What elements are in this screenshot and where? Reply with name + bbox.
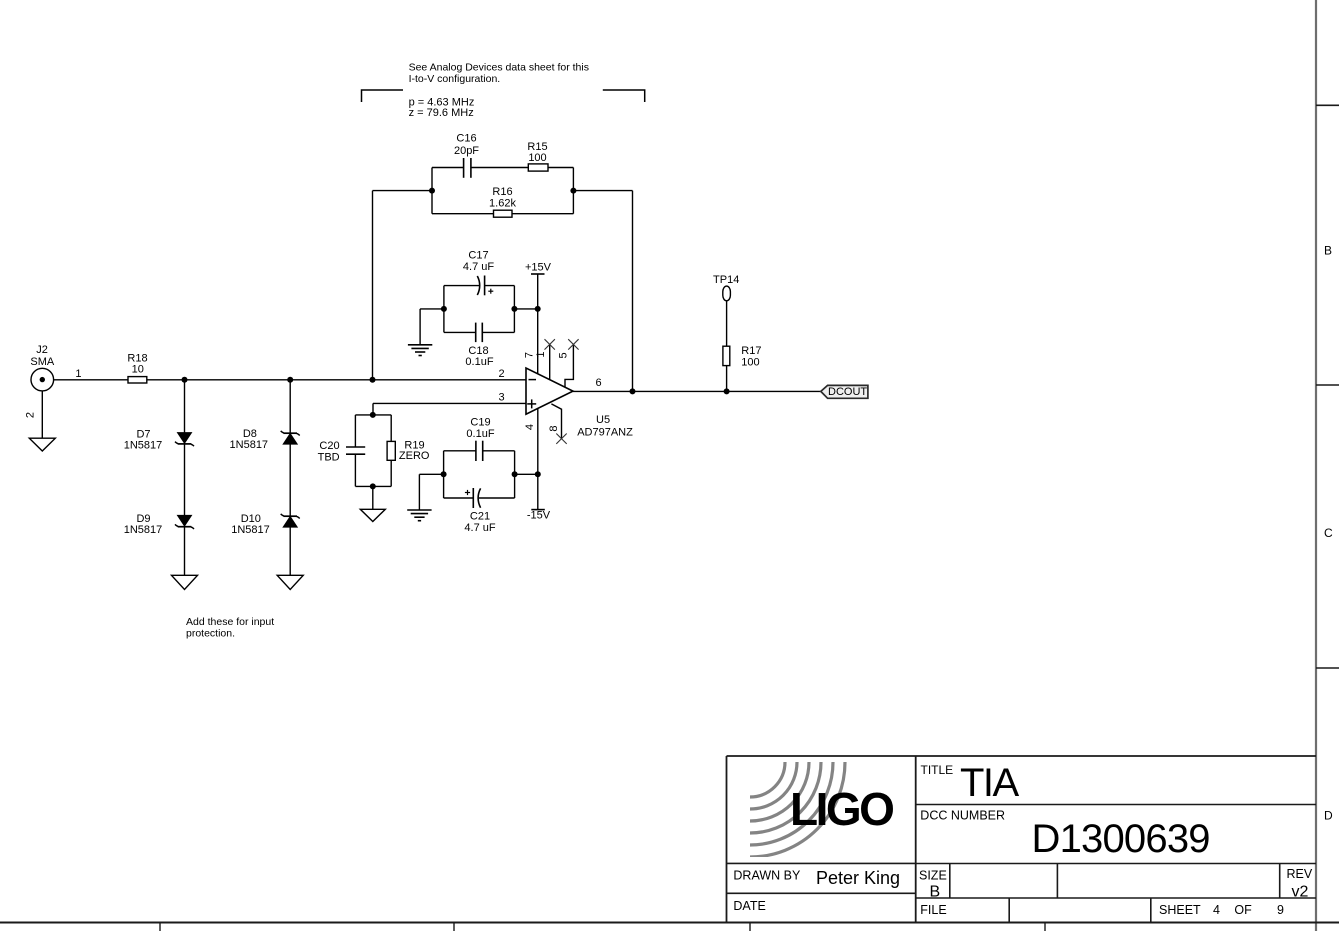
node D8 branch	[287, 377, 293, 383]
diode D7	[175, 433, 194, 447]
ground J2	[29, 438, 55, 451]
title block FILE cell	[920, 903, 946, 917]
pin 4 label U5	[524, 424, 536, 430]
node C17C18 right	[511, 306, 517, 312]
pin 5 stub U5	[565, 344, 573, 387]
node D7 branch	[182, 377, 188, 383]
title block DRAWN BY cell	[733, 868, 900, 888]
wire D7 top	[184, 380, 186, 433]
svg-text:B: B	[930, 884, 941, 901]
wire C18 bottom branch right	[482, 331, 514, 333]
pin 3 label U5	[498, 392, 504, 404]
wire C20R19 top	[355, 414, 391, 416]
svg-text:C: C	[1324, 526, 1333, 540]
connector J2 label	[30, 344, 55, 368]
svg-text:LIGO: LIGO	[790, 783, 893, 835]
svg-text:TP14: TP14	[713, 274, 739, 286]
pin 1 stub U5	[549, 344, 551, 379]
capacitor C18 label	[465, 345, 493, 368]
svg-text:9: 9	[1277, 903, 1284, 917]
pin 2 label J2	[24, 412, 36, 418]
wire C21 bottom branch left	[444, 497, 474, 499]
wire feedback bottom branch left	[432, 213, 494, 215]
testpoint TP14	[723, 286, 731, 301]
wire feedback top branch mid	[471, 167, 529, 169]
frame zone divider y668	[1316, 667, 1339, 669]
svg-text:4: 4	[1213, 903, 1220, 917]
svg-text:TIA: TIA	[960, 761, 1020, 805]
wire C19C21 right vertical	[514, 451, 516, 498]
pin 6 label U5	[595, 377, 601, 389]
frame zone divider y105	[1316, 104, 1339, 106]
pin 1 label U5	[535, 351, 547, 357]
wire D7 to D9	[184, 444, 186, 516]
svg-text:R17: R17	[741, 345, 761, 357]
svg-text:100: 100	[528, 152, 546, 164]
frame zone letter C	[1324, 526, 1333, 540]
svg-text:FILE: FILE	[920, 903, 946, 917]
wire R19 branch upper	[390, 415, 392, 442]
svg-text:U5: U5	[596, 414, 610, 426]
svg-text:1N5817: 1N5817	[230, 439, 269, 451]
op-amp U5 label	[577, 414, 633, 439]
svg-text:6: 6	[595, 377, 601, 389]
svg-text:SMA: SMA	[30, 356, 55, 368]
svg-text:OF: OF	[1234, 903, 1252, 917]
wire C20 branch lower	[354, 454, 356, 486]
resistor R18	[128, 377, 147, 383]
frame bottom border	[0, 922, 1339, 924]
frame bottom tick x454	[453, 923, 455, 931]
wire C17C18 right vertical	[513, 286, 515, 333]
svg-text:protection.: protection.	[186, 628, 235, 640]
wire C20 branch upper	[354, 415, 356, 447]
capacitor C16 label	[454, 133, 479, 158]
svg-text:100: 100	[741, 357, 759, 369]
svg-text:I-to-V configuration.: I-to-V configuration.	[409, 73, 501, 85]
svg-text:5: 5	[558, 352, 570, 358]
frame zone letter B	[1324, 244, 1332, 258]
node feedback right	[570, 188, 576, 194]
svg-text:z = 79.6 MHz: z = 79.6 MHz	[409, 107, 474, 119]
note text: See Analog Devices	[409, 62, 589, 86]
svg-text:J2: J2	[36, 344, 48, 356]
ground C20R19	[360, 509, 385, 521]
svg-text:4.7 uF: 4.7 uF	[463, 261, 494, 273]
capacitor C18	[476, 323, 483, 343]
note bracket right	[603, 90, 645, 102]
node C20R19 top	[370, 412, 376, 418]
svg-text:D1300639: D1300639	[1032, 817, 1210, 861]
svg-text:C20: C20	[319, 440, 339, 452]
svg-text:1: 1	[75, 368, 81, 380]
title block outline	[727, 756, 1317, 923]
wire C19C21 mid left	[419, 474, 443, 510]
wire pin7 supply vertical	[537, 274, 539, 374]
op-amp minus sign	[529, 379, 537, 381]
svg-text:C21: C21	[470, 511, 490, 523]
svg-text:C19: C19	[470, 417, 490, 429]
node feedback input	[370, 377, 376, 383]
node C19C21 right	[512, 471, 518, 477]
svg-text:4: 4	[524, 424, 536, 430]
svg-text:1N5817: 1N5817	[124, 524, 163, 536]
ground D9	[172, 575, 198, 589]
frame right vertical border	[1315, 0, 1317, 931]
wire C21 bottom branch right	[479, 497, 515, 499]
svg-text:20pF: 20pF	[454, 145, 479, 157]
node pin7 supply	[535, 306, 541, 312]
wire R19 branch lower	[390, 460, 392, 486]
svg-text:SIZE: SIZE	[919, 869, 947, 883]
wire feedback out right	[573, 191, 632, 392]
capacitor C21	[465, 488, 481, 508]
node pin4 supply	[535, 471, 541, 477]
ground bars C19C21	[407, 510, 431, 521]
title block SHEET cell	[1159, 903, 1284, 917]
pin 1 no-connect X	[545, 339, 555, 349]
op-amp U5	[526, 368, 573, 414]
svg-text:4.7 uF: 4.7 uF	[464, 522, 495, 534]
power +15V bar	[531, 273, 545, 275]
wire pin4 supply vertical	[537, 408, 539, 509]
wire C17C18 left vertical	[443, 286, 445, 333]
wire C17 top branch left	[444, 285, 479, 287]
pin 5 label U5	[558, 352, 570, 358]
svg-text:D10: D10	[241, 513, 261, 525]
wire C18 bottom branch left	[444, 331, 476, 333]
svg-text:DRAWN BY: DRAWN BY	[733, 869, 801, 883]
wire C20R19 bottom	[355, 485, 391, 487]
diode D9	[175, 515, 194, 529]
pin 8 stub U5	[551, 404, 561, 439]
note bracket left	[362, 90, 404, 102]
svg-text:SHEET: SHEET	[1159, 903, 1201, 917]
testpoint TP14 label	[713, 274, 739, 286]
wire feedback loop left vertical	[431, 168, 433, 214]
ground D10	[277, 575, 303, 589]
diode D10 label	[231, 513, 270, 536]
ground bars C17C18	[408, 345, 432, 356]
pin 2 label U5	[498, 368, 504, 380]
wire D9 to ground	[184, 527, 186, 576]
frame bottom tick x160	[159, 923, 161, 931]
power -15V label	[527, 510, 551, 522]
resistor R17 label	[741, 345, 761, 369]
node C17C18 left	[441, 306, 447, 312]
title block TITLE cell	[921, 761, 1020, 805]
diode D9 label	[124, 513, 163, 536]
pin 5 no-connect X	[568, 339, 578, 349]
capacitor C17	[477, 276, 493, 296]
wire pin3 horizontal	[373, 403, 526, 415]
wire feedback bottom branch right	[512, 213, 573, 215]
svg-text:8: 8	[548, 425, 560, 431]
port DCOUT	[821, 385, 868, 398]
node feedback left	[429, 188, 435, 194]
frame bottom tick x1045	[1044, 923, 1046, 931]
wire TP14 to R17	[726, 301, 728, 346]
svg-text:DATE: DATE	[733, 899, 765, 913]
svg-text:C17: C17	[468, 250, 488, 262]
svg-text:1N5817: 1N5817	[231, 524, 270, 536]
svg-text:Add these for input: Add these for input	[186, 616, 274, 628]
wire D8 top	[289, 380, 291, 433]
resistor R16 label	[489, 186, 516, 210]
wire feedback top branch right	[548, 167, 573, 169]
frame zone divider y385	[1316, 384, 1339, 386]
wire output	[573, 390, 821, 392]
frame zone letter D	[1324, 809, 1333, 823]
resistor R18 label	[127, 353, 147, 376]
node output feedback	[630, 388, 636, 394]
pin 1 label J2	[75, 368, 81, 380]
node C20R19 bottom	[370, 483, 376, 489]
svg-text:DCC NUMBER: DCC NUMBER	[920, 809, 1005, 823]
capacitor C19	[476, 441, 483, 461]
svg-text:AD797ANZ: AD797ANZ	[577, 427, 633, 439]
svg-text:2: 2	[498, 368, 504, 380]
power -15V bar	[531, 509, 545, 511]
capacitor C16	[464, 158, 471, 178]
pin 7 label U5	[524, 352, 536, 358]
svg-text:D8: D8	[243, 428, 257, 440]
svg-text:7: 7	[524, 352, 536, 358]
svg-text:0.1uF: 0.1uF	[465, 356, 493, 368]
wire C19C21 mid right	[515, 473, 538, 475]
svg-text:ZERO: ZERO	[399, 450, 430, 462]
svg-text:10: 10	[132, 364, 144, 376]
svg-text:TITLE: TITLE	[921, 763, 954, 777]
svg-text:B: B	[1324, 244, 1332, 258]
svg-text:See Analog Devices data sheet: See Analog Devices data sheet for this	[409, 62, 589, 74]
svg-text:D: D	[1324, 809, 1333, 823]
wire J2 to R18	[54, 379, 128, 381]
diode D10	[281, 514, 300, 527]
svg-text:+15V: +15V	[525, 262, 552, 274]
wire R17 to output	[726, 366, 728, 392]
capacitor C20	[346, 447, 365, 454]
capacitor C19 label	[466, 417, 494, 441]
wire C19 top branch right	[483, 450, 515, 452]
capacitor C21 label	[464, 511, 495, 535]
power +15V label	[525, 262, 552, 274]
svg-text:v2: v2	[1292, 884, 1309, 901]
node C19C21 left	[441, 471, 447, 477]
svg-text:1N5817: 1N5817	[124, 439, 163, 451]
resistor R15	[528, 164, 548, 171]
wire feedback out left	[373, 191, 433, 380]
wire D10 to ground	[289, 527, 291, 575]
svg-text:TBD: TBD	[318, 452, 340, 464]
resistor R19	[387, 441, 395, 460]
wire main input	[147, 379, 526, 381]
svg-text:Peter King: Peter King	[816, 868, 900, 888]
wire C19 top branch left	[444, 450, 476, 452]
pin 8 no-connect X	[556, 434, 566, 444]
svg-text:3: 3	[498, 392, 504, 404]
wire C17 top branch right	[485, 285, 515, 287]
wire feedback loop right vertical	[572, 168, 574, 214]
resistor R17	[723, 346, 730, 365]
capacitor C20 label	[318, 440, 340, 464]
svg-text:-15V: -15V	[527, 510, 551, 522]
wire C19C21 left vertical	[443, 451, 445, 498]
svg-text:1: 1	[535, 351, 547, 357]
note text p z values	[409, 97, 475, 120]
note text input protection	[186, 616, 274, 640]
resistor R15 label	[527, 141, 547, 164]
diode D7 label	[124, 428, 163, 451]
svg-text:1.62k: 1.62k	[489, 198, 516, 210]
svg-text:0.1uF: 0.1uF	[466, 428, 494, 440]
wire D8 to D10	[289, 444, 291, 516]
resistor R19 label	[399, 440, 430, 463]
title block DATE cell	[733, 899, 765, 913]
capacitor C17 label	[463, 250, 494, 274]
svg-text:2: 2	[24, 412, 36, 418]
title block REV cell	[1287, 867, 1313, 901]
diode D8 label	[230, 428, 269, 451]
svg-text:REV: REV	[1287, 867, 1313, 881]
frame bottom tick x750	[749, 923, 751, 931]
title block SIZE cell	[919, 869, 947, 901]
resistor R16	[494, 210, 513, 217]
svg-text:C16: C16	[456, 133, 476, 145]
connector J2	[31, 368, 54, 391]
LIGO logo	[750, 762, 893, 857]
wire C17C18 mid right	[514, 308, 537, 310]
wire J2 pin2	[41, 391, 43, 438]
pin 8 label U5	[548, 425, 560, 431]
svg-text:R16: R16	[492, 186, 512, 198]
wire C20R19 to ground	[372, 486, 374, 509]
wire feedback top branch left	[432, 167, 463, 169]
title block DCC cell	[920, 809, 1209, 862]
node output R17	[724, 388, 730, 394]
wire C17C18 mid left	[420, 309, 444, 345]
svg-text:D9: D9	[136, 513, 150, 525]
diode D8	[281, 431, 300, 444]
svg-text:DCOUT: DCOUT	[828, 386, 867, 398]
op-amp plus sign	[527, 399, 536, 408]
